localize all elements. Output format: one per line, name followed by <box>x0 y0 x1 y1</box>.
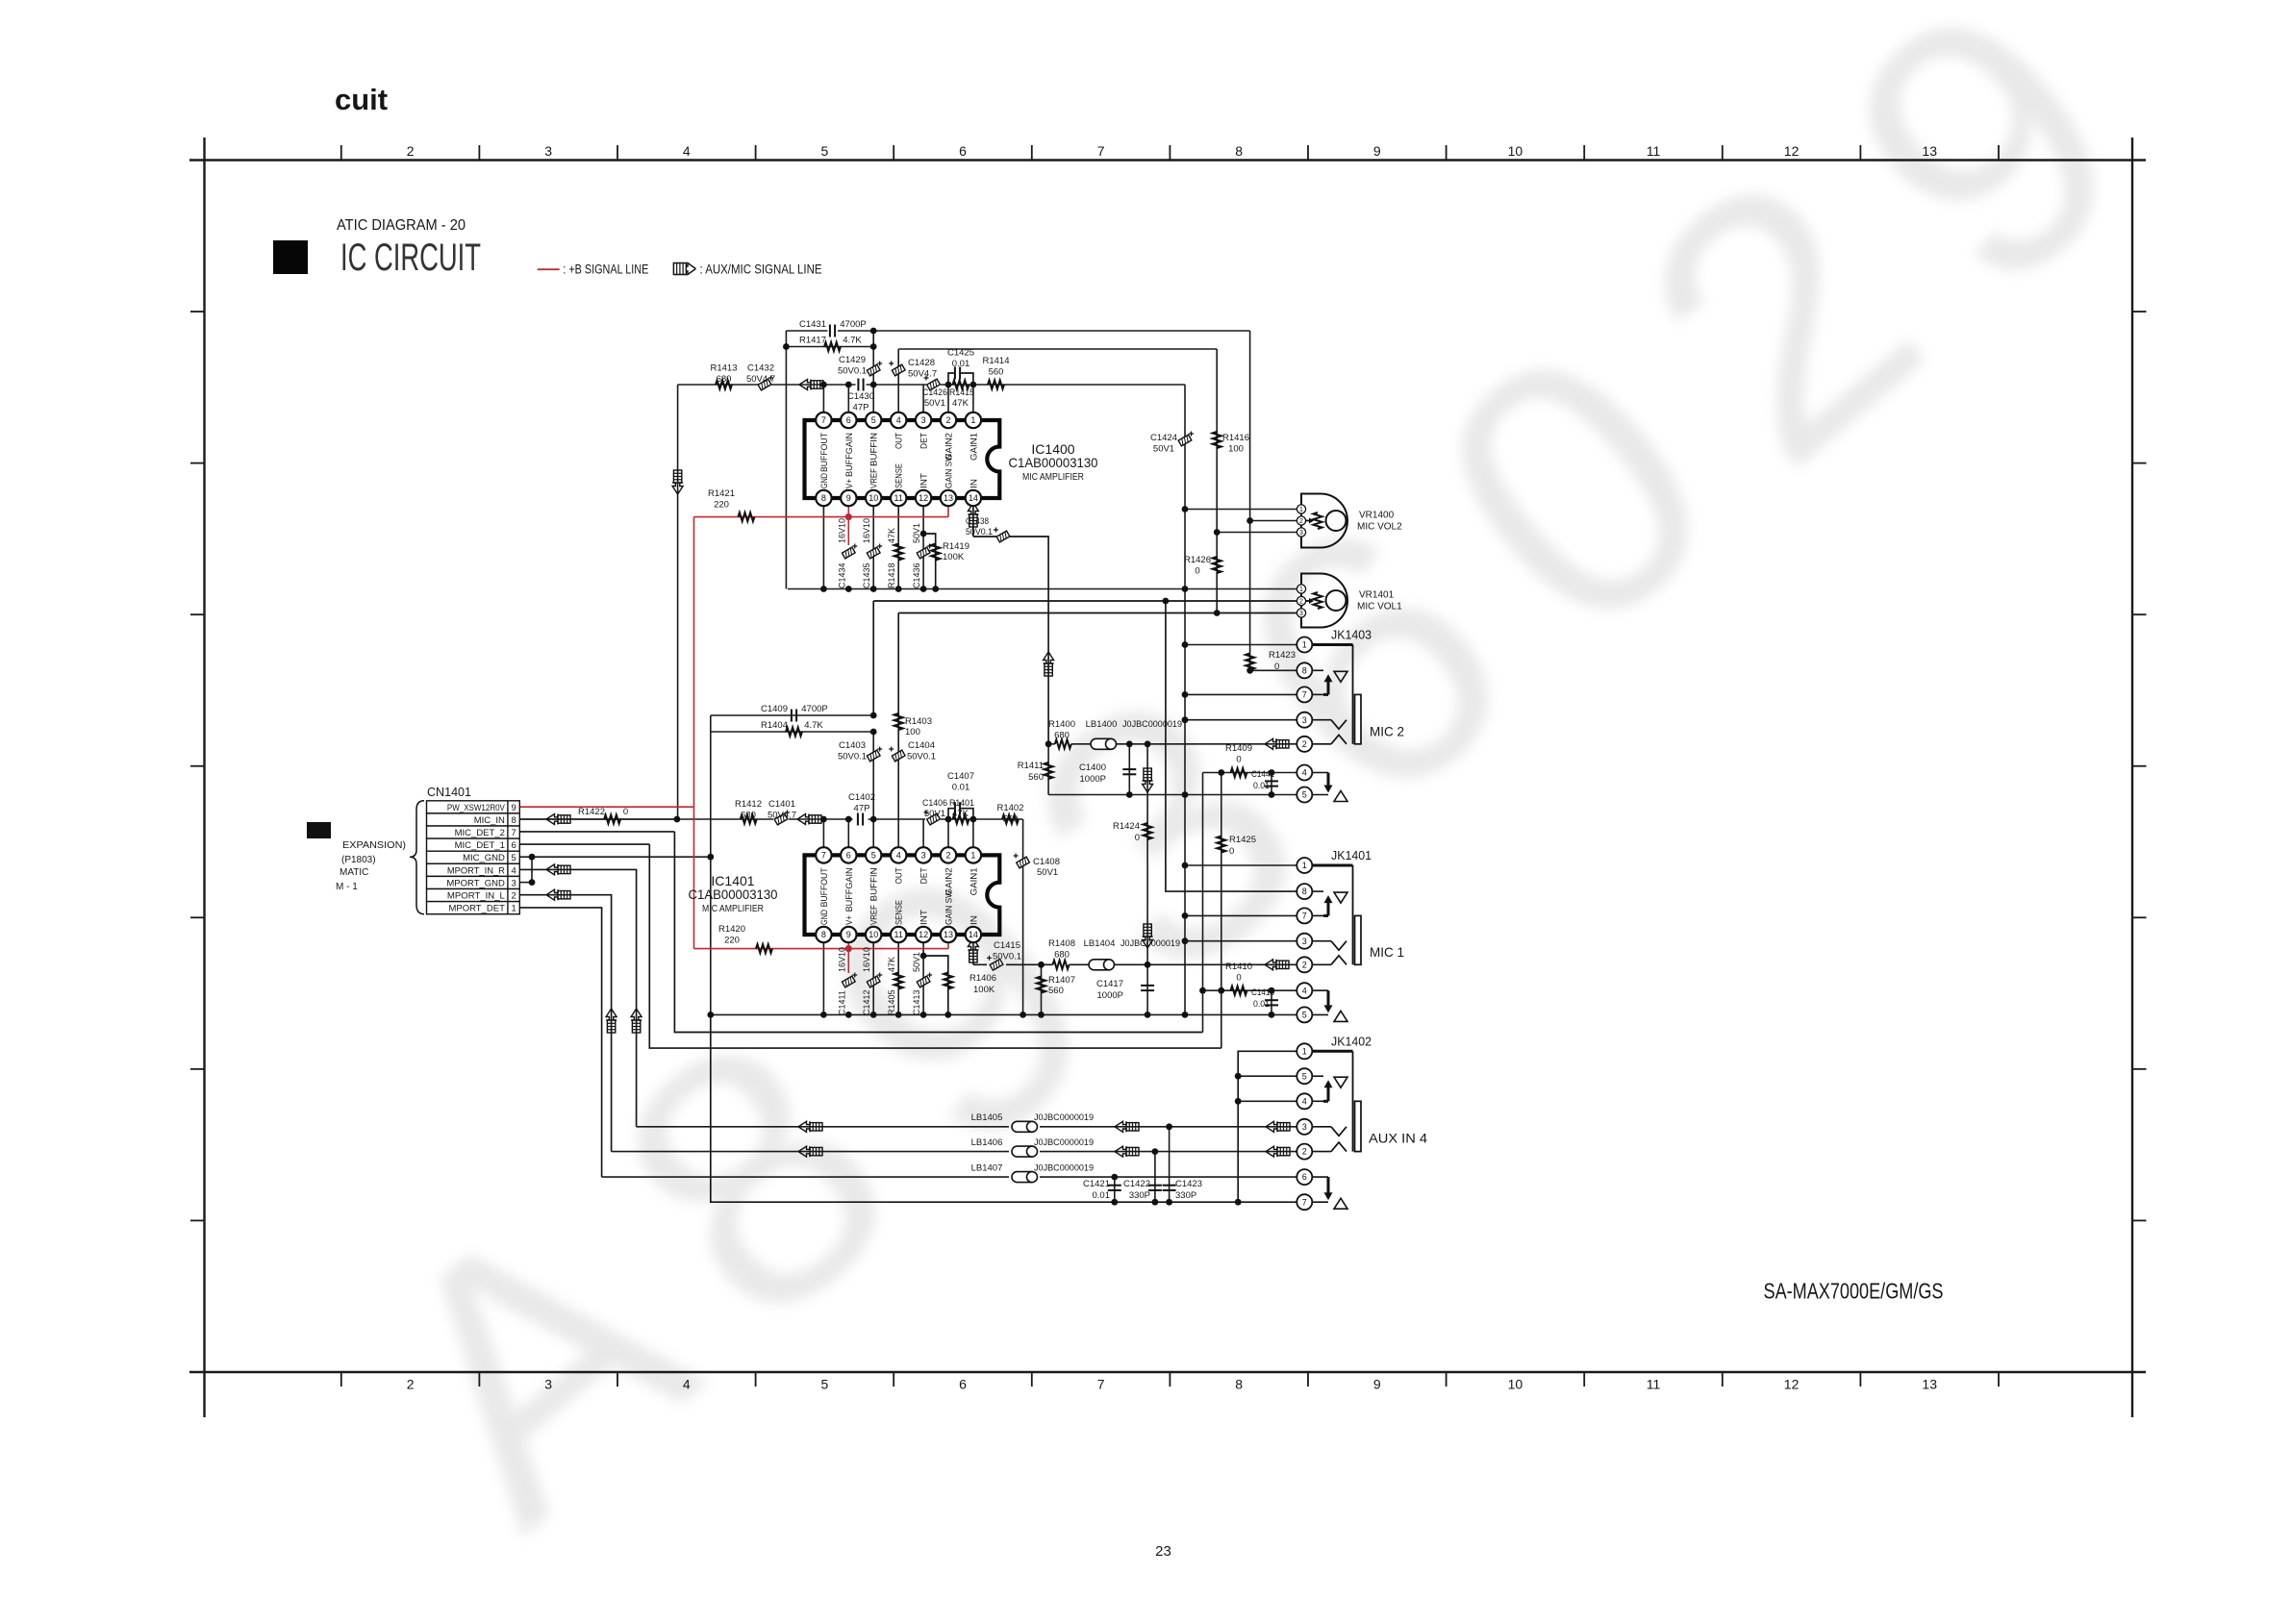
capacitor C1425 <box>947 348 974 380</box>
svg-text:: AUX/MIC SIGNAL LINE: : AUX/MIC SIGNAL LINE <box>700 262 822 277</box>
svg-text:11: 11 <box>1647 143 1661 159</box>
svg-text:0: 0 <box>1236 755 1241 765</box>
resistor R1424 <box>1113 821 1152 843</box>
svg-text:CN1401: CN1401 <box>427 785 471 799</box>
wire VR1400 pin2 feedback riser <box>1249 331 1251 521</box>
wire xC col <box>1202 773 1204 1033</box>
connector JK1401 MIC 1 jack <box>1297 848 1404 1022</box>
signal flow arrow LB1406 row left <box>1115 1146 1139 1157</box>
svg-text:R1412: R1412 <box>735 799 762 810</box>
potentiometer VR1400 MIC VOL2 <box>1297 494 1402 548</box>
capacitor C1413 <box>912 952 932 1015</box>
svg-text:3: 3 <box>511 878 516 888</box>
capacitor C1409 <box>761 704 828 722</box>
svg-text:3: 3 <box>544 1377 552 1392</box>
svg-text:1: 1 <box>1299 507 1303 513</box>
resistor R1415 <box>949 380 974 409</box>
svg-text:560: 560 <box>1048 986 1064 996</box>
svg-text:BUFFOUT: BUFFOUT <box>819 433 830 472</box>
svg-text:J0JBC0000019: J0JBC0000019 <box>1034 1137 1094 1148</box>
wire C1425 parallel loop <box>948 373 973 385</box>
svg-text:SENSE: SENSE <box>894 900 905 925</box>
svg-text:5: 5 <box>1302 1011 1307 1020</box>
svg-text:0.01: 0.01 <box>952 359 970 369</box>
resistor R1404 <box>761 720 823 737</box>
wire gnd col to AUX <box>711 1014 1305 1202</box>
svg-text:MPORT_IN_R: MPORT_IN_R <box>447 865 505 876</box>
capacitor C1432 <box>746 363 775 390</box>
svg-text:C1411: C1411 <box>837 990 846 1015</box>
svg-text:7: 7 <box>1302 912 1307 921</box>
svg-text:560: 560 <box>1028 772 1044 783</box>
svg-text:9: 9 <box>1373 143 1381 159</box>
resistor R1410 <box>1225 962 1252 995</box>
svg-text:7: 7 <box>821 851 826 861</box>
wire MIC_IN row <box>519 818 677 820</box>
junction dots IC1401 net <box>529 712 1275 1206</box>
signal flow arrow MPORT_IN_R <box>546 864 570 875</box>
svg-text:IN: IN <box>969 479 979 488</box>
svg-text:0: 0 <box>1229 846 1234 857</box>
svg-text:OUT: OUT <box>894 433 905 449</box>
svg-text:7: 7 <box>1302 690 1307 700</box>
wire JK1403 pin7 line <box>1185 693 1304 695</box>
svg-text:50V0.1: 50V0.1 <box>993 952 1021 962</box>
svg-text:R1401: R1401 <box>949 798 974 809</box>
signal flow arrow MIC2 in <box>799 380 823 390</box>
capacitor C1411 <box>837 947 857 1015</box>
capacitor C1441 <box>1251 769 1278 791</box>
svg-text:GAIN1: GAIN1 <box>969 433 979 461</box>
svg-text:C1AB00003130: C1AB00003130 <box>689 887 778 902</box>
svg-text:R1416: R1416 <box>1222 433 1249 443</box>
svg-text:9: 9 <box>846 930 851 939</box>
wire pin14 IC1401 drop <box>972 935 974 964</box>
svg-text:100: 100 <box>905 727 920 737</box>
wire pin10 drop C1435 <box>872 498 874 589</box>
wire R1417 line <box>786 346 873 348</box>
brace and EXPANSION label <box>336 801 424 914</box>
svg-text:11: 11 <box>894 493 903 503</box>
svg-text:50V1: 50V1 <box>1153 444 1174 455</box>
svg-text:BUFFGAIN: BUFFGAIN <box>844 433 855 477</box>
junction dots IC1400 net <box>783 328 1274 994</box>
svg-text:C1422: C1422 <box>1123 1179 1150 1189</box>
wire JK1401 pin1 line <box>1185 864 1304 866</box>
wire pin2 riser IC1401 <box>947 819 949 855</box>
wire JK1403 pin1 line <box>1185 644 1304 646</box>
capacitor C1417 <box>1096 979 1154 1001</box>
wire pin3 riser IC1401 <box>922 819 924 855</box>
wire C1441 col <box>1271 773 1272 795</box>
resistor R1411 <box>1018 761 1053 783</box>
wire VR1400 pin3 line <box>1217 532 1301 534</box>
red junction V+ IC1400 <box>845 513 852 520</box>
svg-text:2: 2 <box>1302 739 1307 749</box>
svg-text:2: 2 <box>1299 518 1303 525</box>
ferrite bead LB1405 <box>971 1112 1094 1132</box>
wire IC1400 input line y400 <box>678 384 856 386</box>
resistor R1421 <box>708 488 754 521</box>
svg-text:R1414: R1414 <box>983 356 1010 366</box>
svg-text:0: 0 <box>623 807 628 817</box>
wire pin5 riser C1429 <box>872 331 874 420</box>
svg-text:10: 10 <box>869 493 878 503</box>
wire MIC_IN riser <box>677 385 679 819</box>
red R1420 line to IC1401 <box>694 935 949 949</box>
wire R1424/C1417 col <box>1146 744 1148 1015</box>
svg-text:7: 7 <box>1097 1377 1105 1392</box>
svg-text:(P1803): (P1803) <box>341 855 376 865</box>
svg-text:3: 3 <box>1302 715 1307 725</box>
svg-text:MIC_GND: MIC_GND <box>463 853 505 863</box>
red junction V+ IC1401 <box>845 945 852 952</box>
wire C1431 feedback top line <box>786 330 827 332</box>
signal flow arrow C1438 riser <box>1044 652 1054 676</box>
resistor R1407 <box>1037 975 1075 996</box>
wire pin1 riser IC1401 <box>972 819 974 855</box>
svg-text:1: 1 <box>1299 587 1303 593</box>
svg-text:4: 4 <box>511 865 516 876</box>
svg-text:50V1: 50V1 <box>912 523 921 543</box>
svg-text:12: 12 <box>1784 143 1800 159</box>
signal flow arrow MIC_IN riser <box>672 470 683 494</box>
svg-text:47K: 47K <box>952 398 969 409</box>
svg-text:8: 8 <box>1302 887 1307 896</box>
capacitor C1428 <box>889 358 937 380</box>
wire C1416 col <box>1271 990 1272 1014</box>
svg-text:0.01: 0.01 <box>1253 999 1270 1010</box>
svg-text:C1435: C1435 <box>862 562 871 588</box>
wire IC1401 pin12 drop <box>922 935 924 1014</box>
svg-text:330P: 330P <box>1175 1190 1196 1201</box>
svg-text:3: 3 <box>1302 937 1307 946</box>
wire LB1405 row <box>637 1126 1009 1128</box>
ferrite bead LB1407 <box>971 1163 1094 1183</box>
svg-text:1: 1 <box>970 851 975 861</box>
svg-text:7: 7 <box>1302 1197 1307 1207</box>
wire JK1402 left bracket col <box>1238 1051 1304 1202</box>
svg-text:1000P: 1000P <box>1080 774 1106 785</box>
wire VR1401 pin2 line <box>873 601 1310 715</box>
op-amp IC1400 C1AB00003130 MIC AMPLIFIER <box>805 412 1098 506</box>
wire pin2 riser <box>947 385 949 420</box>
wire pin7 drop IC1401 <box>822 819 824 855</box>
ruler numbers <box>407 143 1937 1392</box>
svg-text:3: 3 <box>1299 611 1303 617</box>
wire C1421 col <box>1114 1177 1116 1202</box>
svg-text:BUFFGAIN: BUFFGAIN <box>844 867 855 912</box>
svg-text:13: 13 <box>944 930 953 939</box>
svg-text:R1417: R1417 <box>799 336 826 346</box>
red +B net CN pin9 row <box>519 806 693 808</box>
ferrite bead LB1404 <box>1084 938 1180 970</box>
svg-text:C1441: C1441 <box>1251 769 1274 780</box>
signal flow arrow JK1401 pin2 <box>1265 960 1289 970</box>
svg-text:2: 2 <box>511 891 516 902</box>
svg-text:2: 2 <box>945 851 950 861</box>
wire pin12 drop C1436 <box>922 498 924 589</box>
svg-text:R1423: R1423 <box>1269 650 1296 661</box>
svg-text:8: 8 <box>821 493 826 503</box>
svg-text:MIC 2: MIC 2 <box>1370 723 1404 738</box>
ferrite bead LB1406 <box>971 1137 1094 1157</box>
svg-text:50V4.7: 50V4.7 <box>768 811 796 821</box>
svg-text:MIC_DET_1: MIC_DET_1 <box>455 840 505 851</box>
svg-text:2: 2 <box>1302 960 1307 969</box>
wire det2 row to JK1403 pin4 <box>519 832 1202 1033</box>
svg-text:5: 5 <box>1302 790 1307 800</box>
wire xD R1425 col <box>1221 773 1222 1049</box>
signal flow up arrow MPORT_IN_L col <box>606 1009 617 1033</box>
svg-text:0: 0 <box>1274 662 1279 672</box>
wire R1423 col <box>1249 521 1251 671</box>
svg-text:1: 1 <box>511 904 516 914</box>
wire MPORT_DET row <box>519 908 601 1177</box>
svg-text:C1AB00003130: C1AB00003130 <box>1009 455 1098 470</box>
wire det1 row to JK1401 pin4 <box>519 844 1221 1048</box>
resistor R1416 <box>1213 432 1249 455</box>
svg-text:C1425: C1425 <box>947 348 974 359</box>
svg-text:EXPANSION): EXPANSION) <box>342 840 406 851</box>
svg-text:330P: 330P <box>1129 1190 1150 1201</box>
resistor R1423 <box>1246 650 1296 672</box>
capacitor C1406 <box>922 798 947 825</box>
svg-text:C1407: C1407 <box>947 771 974 782</box>
svg-text:R1419: R1419 <box>943 541 969 552</box>
capacitor C1431 <box>799 319 867 337</box>
capacitor C1408 <box>1014 854 1060 879</box>
wire VR1400 pin2 line <box>1250 520 1310 522</box>
resistor R1422 <box>578 807 628 824</box>
svg-text:8: 8 <box>1235 1377 1243 1392</box>
signal flow down arrow R1424 col upper <box>1143 768 1153 792</box>
black square marker <box>273 240 308 274</box>
svg-text:50V0.1: 50V0.1 <box>838 366 867 377</box>
svg-text:C1412: C1412 <box>862 989 871 1015</box>
svg-text:JK1402: JK1402 <box>1331 1034 1372 1048</box>
svg-text:R1403: R1403 <box>905 716 932 727</box>
svg-text:50V1: 50V1 <box>912 952 921 972</box>
resistor R1408 <box>1048 938 1075 969</box>
svg-text:R1421: R1421 <box>708 488 735 499</box>
resistor R1419 <box>931 541 969 562</box>
svg-text:JK1403: JK1403 <box>1331 628 1372 642</box>
wire JK1403 pin2 line <box>1048 743 1055 745</box>
wire pin4 riser R1403/C1404 <box>897 716 899 855</box>
wire JK1401 pin7 line <box>1185 914 1304 916</box>
svg-text:1: 1 <box>970 415 975 425</box>
svg-text:MIC 1: MIC 1 <box>1370 944 1404 960</box>
connector CN1401 <box>427 785 520 914</box>
svg-text:6: 6 <box>959 143 967 159</box>
svg-text:680: 680 <box>1054 950 1070 961</box>
svg-text:INT: INT <box>919 473 930 488</box>
svg-text:4: 4 <box>896 851 901 861</box>
svg-text:MIC AMPLIFIER: MIC AMPLIFIER <box>1022 472 1084 483</box>
svg-text:VR1401: VR1401 <box>1359 590 1395 601</box>
resistor R1401 <box>949 798 974 824</box>
svg-text:J0JBC0000019: J0JBC0000019 <box>1122 719 1182 730</box>
svg-text:ATIC DIAGRAM - 20: ATIC DIAGRAM - 20 <box>337 217 466 234</box>
svg-text:9: 9 <box>1373 1377 1381 1392</box>
capacitor C1426 <box>922 376 947 410</box>
svg-text:5: 5 <box>871 851 876 861</box>
svg-text:5: 5 <box>821 1377 829 1392</box>
wire C1400 col <box>1128 744 1130 795</box>
svg-text:0: 0 <box>1195 566 1199 577</box>
svg-text:LB1407: LB1407 <box>971 1163 1003 1174</box>
wire JK1401 pin3 line <box>1185 940 1304 942</box>
svg-text:R1400: R1400 <box>1048 719 1075 730</box>
svg-text:AUX IN 4: AUX IN 4 <box>1369 1131 1427 1146</box>
svg-text:MIC_DET_2: MIC_DET_2 <box>455 828 505 838</box>
svg-text:16V10: 16V10 <box>862 518 871 543</box>
svg-text:680: 680 <box>1054 731 1070 741</box>
capacitor C1435 <box>862 518 882 588</box>
svg-text:2: 2 <box>1302 1147 1307 1157</box>
resistor R1400 <box>1048 719 1075 748</box>
svg-text:3: 3 <box>544 143 552 159</box>
wire pin6 drop <box>847 385 849 420</box>
wire IC1400 gnd rail <box>788 588 1301 590</box>
svg-text:PW_XSW12R0V: PW_XSW12R0V <box>447 803 506 813</box>
signal flow arrow MIC1 in <box>797 814 821 825</box>
svg-text:OUT: OUT <box>894 867 905 884</box>
wire C1422 col <box>1154 1152 1156 1203</box>
resistor R1417 <box>799 336 862 352</box>
svg-text:C1436: C1436 <box>912 562 921 588</box>
svg-text:GAIN SW: GAIN SW <box>944 454 955 488</box>
svg-text:LB1405: LB1405 <box>971 1112 1003 1123</box>
svg-text:C1438: C1438 <box>966 516 989 527</box>
red V+ drop C1411 <box>847 935 849 949</box>
svg-text:4.7K: 4.7K <box>804 720 823 731</box>
capacitor C1403 <box>838 740 882 762</box>
svg-text:C1424: C1424 <box>1150 433 1177 443</box>
wire R1411 col <box>1047 744 1049 795</box>
svg-text:50V0.1: 50V0.1 <box>907 752 936 762</box>
capacitor C1412 <box>862 947 882 1015</box>
svg-text:SENSE: SENSE <box>894 463 905 488</box>
svg-text:MIC VOL1: MIC VOL1 <box>1357 602 1402 612</box>
resistor R1403 <box>894 713 932 737</box>
wire MIC_GND to MPORT_GND link col <box>531 857 533 882</box>
svg-text:R1404: R1404 <box>761 720 788 731</box>
svg-text:10: 10 <box>1508 143 1523 159</box>
wire x738 col <box>710 715 712 1014</box>
wire MPORT_IN_L row <box>519 895 611 1152</box>
wire JK1403 pin4 line <box>1203 772 1305 774</box>
op-amp IC1401 C1AB00003130 MIC AMPLIFIER <box>689 847 1000 942</box>
svg-text:11: 11 <box>894 930 903 939</box>
signal flow arrow MIC_IN <box>546 814 570 825</box>
svg-text:C1431: C1431 <box>799 319 826 330</box>
wire JK1402 pin4 line <box>1238 1100 1304 1102</box>
svg-text:C1408: C1408 <box>1033 857 1060 867</box>
svg-text:GND: GND <box>819 910 830 925</box>
capacitor C1400 <box>1079 762 1136 785</box>
svg-text:560: 560 <box>1003 814 1019 825</box>
wire R1419 branch <box>923 534 936 589</box>
wire C1407 parallel loop <box>948 809 973 819</box>
svg-text:14: 14 <box>969 493 978 503</box>
signal flow arrow IC1401 IN <box>968 938 978 962</box>
svg-text:R1411: R1411 <box>1018 761 1044 771</box>
resistor R1413 <box>711 363 738 389</box>
black square section marker <box>307 822 331 838</box>
svg-text:LB1404: LB1404 <box>1084 938 1116 949</box>
svg-text:7: 7 <box>511 828 516 838</box>
svg-text:R1420: R1420 <box>718 924 745 935</box>
svg-text:13: 13 <box>1922 1377 1937 1392</box>
svg-text:GAIN1: GAIN1 <box>969 867 979 895</box>
svg-text:SA-MAX7000E/GM/GS: SA-MAX7000E/GM/GS <box>1764 1279 1944 1304</box>
svg-text:IN: IN <box>969 915 979 925</box>
svg-text:M - 1: M - 1 <box>336 882 358 892</box>
wire R1404 line <box>711 731 874 733</box>
signal flow arrow JK1403 pin2 <box>1265 738 1289 749</box>
svg-text:GAIN SW: GAIN SW <box>944 890 955 925</box>
capacitor C1416 <box>1251 987 1278 1010</box>
svg-text:C1426: C1426 <box>922 387 947 398</box>
svg-text:6: 6 <box>846 851 851 861</box>
wire JK1402 pin5 line <box>1238 1075 1304 1077</box>
wire R1407 col <box>1041 964 1043 1014</box>
svg-text:11: 11 <box>1647 1377 1661 1392</box>
wire JK1401 pin2 line <box>973 963 1304 965</box>
wire pin6 drop IC1401 <box>847 819 849 855</box>
svg-text:MPORT_IN_L: MPORT_IN_L <box>447 891 505 902</box>
svg-text:C1421: C1421 <box>1083 1179 1110 1189</box>
svg-text:0: 0 <box>1135 833 1140 843</box>
svg-text:BUFFIN: BUFFIN <box>869 433 880 466</box>
svg-text:C1417: C1417 <box>1096 979 1123 989</box>
svg-text:C1415: C1415 <box>994 940 1020 951</box>
svg-text:MPORT_GND: MPORT_GND <box>446 878 505 888</box>
wire C1423 col <box>1169 1127 1171 1202</box>
svg-text:MATIC: MATIC <box>340 867 368 878</box>
signal flow arrow JK1402 pin2 <box>1266 1146 1290 1157</box>
svg-text:2: 2 <box>407 143 415 159</box>
svg-text:C1401: C1401 <box>768 799 795 810</box>
resistor R1412 <box>735 799 762 824</box>
border frame <box>189 137 2147 1417</box>
resistor R1402 <box>997 803 1024 825</box>
svg-text:14: 14 <box>969 930 978 939</box>
wire pin5 riser IC1401 <box>872 732 874 855</box>
wire R1416 col <box>1216 349 1218 533</box>
svg-text:C1409: C1409 <box>761 704 788 714</box>
svg-text:: +B SIGNAL LINE: : +B SIGNAL LINE <box>563 262 648 277</box>
wire pin11 drop R1418 <box>897 498 899 589</box>
svg-text:100: 100 <box>1228 444 1244 455</box>
capacitor C1422 <box>1123 1179 1162 1201</box>
svg-text:R1426: R1426 <box>1184 555 1211 565</box>
wire MIC2 ground row <box>1048 794 1304 796</box>
wire IC1401 gnd rail <box>711 1013 1305 1015</box>
svg-text:1: 1 <box>1302 640 1307 650</box>
wire pin7 drop <box>822 385 824 420</box>
svg-text:DET: DET <box>919 433 930 449</box>
wire MIC_GND row <box>519 856 711 858</box>
svg-text:2: 2 <box>407 1377 415 1392</box>
svg-text:5: 5 <box>871 415 876 425</box>
svg-text:GND: GND <box>819 473 830 488</box>
legend AUX/MIC signal line <box>673 262 821 277</box>
capacitor C1421 <box>1083 1179 1121 1201</box>
svg-text:IC CIRCUIT: IC CIRCUIT <box>340 237 481 279</box>
